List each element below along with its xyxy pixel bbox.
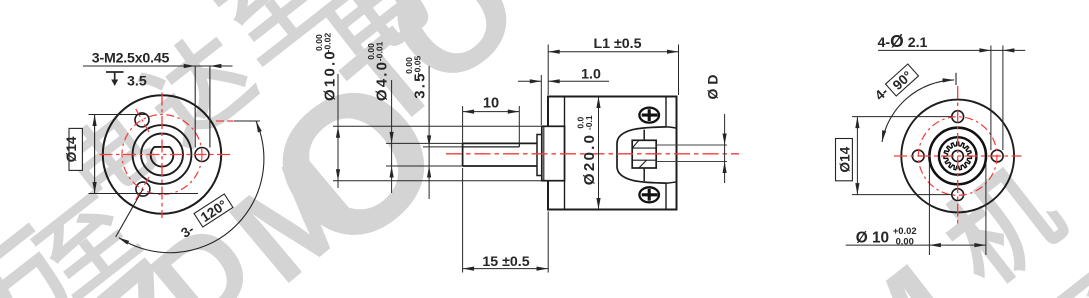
dim L1: [548, 45, 678, 96]
pinion bore: [952, 150, 963, 161]
arrows far-left dims: [336, 126, 431, 180]
arc arrow lower: [118, 238, 129, 245]
svg-text:3.5: 3.5: [127, 74, 147, 90]
extension lines far-left dims: [333, 66, 542, 199]
red bolt circle right view: [918, 117, 997, 196]
ext top: [89, 114, 147, 116]
red center horizontal right view: [894, 155, 1022, 157]
ext shaft bottom: [386, 165, 463, 167]
mounting hole right: [195, 148, 209, 162]
svg-text:4-Ø 2.1: 4-Ø 2.1: [878, 31, 928, 51]
arrow M2.5 right: [210, 64, 222, 68]
dim dia10 right: [846, 162, 986, 255]
dia14 label box: [69, 128, 82, 170]
bearing ring: [939, 137, 977, 175]
ext line hole left: [194, 66, 196, 148]
terminal stub top: [643, 130, 645, 141]
depth symbol and 3.5: [106, 72, 124, 80]
svg-text:-0.05: -0.05: [413, 55, 423, 75]
dimension 3-M2.5x0.45: [83, 66, 260, 148]
ext bottom: [89, 193, 199, 195]
hole top: [952, 111, 964, 123]
angle arc: [119, 121, 264, 253]
motor pins lower: [657, 161, 728, 163]
arrow dia14 top: [93, 115, 97, 127]
dim line dia4.0: [391, 80, 393, 193]
flat end step: [518, 143, 520, 147]
arrow 3.5 bottom: [427, 166, 431, 178]
dia14 right label box: [836, 139, 853, 181]
red radial 120deg: [135, 108, 149, 132]
red centerline middle: [446, 153, 739, 155]
shaft cross-section with flat: [151, 147, 174, 167]
pinion gear: [944, 142, 972, 170]
svg-text:Ø14: Ø14: [64, 136, 79, 162]
shaft bottom line: [463, 165, 537, 167]
svg-text:L1 ±0.5: L1 ±0.5: [593, 36, 641, 52]
pilot boss D10: [542, 126, 565, 180]
arrow d4 top: [390, 132, 394, 144]
rear outer circle: [901, 100, 1014, 213]
svg-text:Ø20.0: Ø20.0: [581, 133, 598, 185]
shaft top line: [463, 142, 537, 144]
terminal bracket: [617, 127, 667, 183]
depth arrow: [111, 80, 118, 87]
flange outer circle: [103, 95, 221, 213]
ext boss top: [333, 125, 542, 127]
svg-text:Ø14: Ø14: [838, 146, 853, 172]
red bolt circle: [122, 115, 202, 195]
screw top: [639, 108, 659, 123]
bracket edge to right bottom: [667, 182, 677, 183]
arc arrow lower-left: [882, 130, 886, 142]
gearbox body outline: [548, 97, 677, 210]
dim line: [94, 115, 96, 194]
dim 1.0: [518, 75, 609, 125]
hole left: [912, 150, 924, 162]
svg-text:Ø10.0: Ø10.0: [322, 49, 339, 101]
mounting hole bottom-left: [136, 182, 150, 196]
hole right: [991, 150, 1003, 162]
bracket edge to right top: [667, 127, 677, 128]
ext line hole right: [209, 66, 211, 148]
svg-text:+0.02: +0.02: [893, 225, 917, 236]
arrow M2.5 left: [184, 64, 196, 68]
tick above top hole: [955, 73, 957, 85]
terminal internal line lower: [632, 159, 656, 161]
dim 4-dia2.1: [878, 46, 1025, 151]
dim dia14 right: [852, 117, 951, 195]
hole bottom: [952, 189, 964, 201]
leader from bottom-left hole: [116, 189, 143, 237]
svg-text:-0.01: -0.01: [375, 41, 385, 61]
dim line 3.5: [428, 66, 430, 199]
terminal internal line upper: [632, 147, 656, 149]
shaft tip edge: [462, 143, 464, 166]
arrow d10 bottom: [336, 169, 340, 181]
svg-text:3-M2.5x0.45: 3-M2.5x0.45: [92, 51, 170, 67]
boss face inner edge: [543, 126, 545, 180]
ext shaft top: [386, 142, 463, 144]
ext flat: [423, 146, 463, 148]
red radial 240deg: [135, 177, 149, 201]
mounting hole top-left: [135, 113, 149, 127]
dim dia14 left: [89, 115, 199, 194]
90 label box: [885, 64, 918, 96]
svg-text:10: 10: [483, 95, 499, 111]
ext boss bottom: [333, 180, 542, 182]
svg-text:-0.1: -0.1: [584, 115, 594, 130]
terminal diagonal lower: [639, 160, 647, 168]
motor joint line: [665, 97, 667, 210]
terminal stub bottom: [643, 168, 645, 181]
svg-text:-0.02: -0.02: [323, 33, 333, 53]
angular dim 3-120: [116, 121, 264, 253]
120 label box rotated: [194, 194, 233, 227]
arc arrow right: [943, 78, 955, 82]
red center vertical: [161, 93, 163, 219]
dim line: [83, 65, 233, 67]
motor pins upper: [657, 144, 728, 146]
dim line dia10.0: [337, 74, 339, 188]
inner ring: [141, 134, 183, 176]
svg-text:Ø 10: Ø 10: [856, 230, 889, 247]
gearbox face inner line: [564, 97, 566, 210]
svg-text:1.0: 1.0: [581, 67, 601, 83]
boss circle D10: [133, 125, 192, 184]
terminal block: [632, 140, 656, 168]
svg-text:机: 机: [926, 149, 1082, 298]
screw bottom: [639, 187, 659, 202]
arrow d4 bottom: [390, 166, 394, 178]
dim dia20: [598, 97, 600, 210]
washer ring: [537, 135, 542, 176]
arrow d10 top: [336, 126, 340, 138]
shaft flat line: [463, 146, 520, 148]
red horizontal at top-left hole height: [216, 120, 233, 122]
red center vertical right view: [957, 86, 959, 227]
dim 15: [463, 168, 549, 273]
svg-text:0.00: 0.00: [896, 236, 914, 247]
arrow 3.5 top: [427, 135, 431, 147]
angular dim 4-90 arc: [882, 80, 954, 142]
arrow dia14 bottom: [93, 182, 97, 194]
arc arrow upper: [256, 121, 262, 133]
dim 10 flat length: [463, 106, 520, 143]
dim diaD: [724, 114, 726, 183]
svg-text:15 ±0.5: 15 ±0.5: [482, 254, 529, 270]
recess circle D10: [929, 128, 986, 185]
red center horizontal: [100, 154, 234, 156]
svg-text:Ø D: Ø D: [705, 75, 721, 100]
ext to 120 label: [234, 120, 261, 122]
svg-text:Ø4.0: Ø4.0: [374, 60, 391, 101]
terminal diagonal upper: [632, 140, 639, 148]
